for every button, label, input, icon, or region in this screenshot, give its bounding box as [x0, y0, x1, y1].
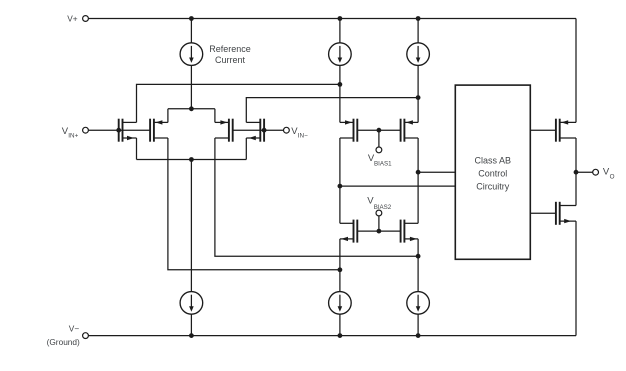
- node NMOS tail / current source I4: [189, 157, 194, 162]
- node top rail / current source I3: [416, 16, 421, 21]
- current source I4: [180, 292, 203, 315]
- svg-text:Control: Control: [478, 169, 507, 179]
- transistor M1 (NMOS, VIN+ input): [118, 119, 120, 142]
- node cascode column V2 / M4 drain wire: [416, 95, 421, 100]
- transistor M3 (PMOS, VIN- input): [232, 119, 234, 142]
- node VIN+ at M1 gate: [116, 128, 121, 133]
- svg-text:IN+: IN+: [68, 133, 78, 140]
- wire Class AB to output NMOS gate: [530, 212, 556, 214]
- svg-text:Reference: Reference: [209, 44, 251, 54]
- wire M8 source down to current source I6: [417, 239, 419, 292]
- svg-text:Class AB: Class AB: [475, 156, 512, 166]
- node V1 to class AB lower wire: [338, 184, 343, 189]
- svg-text:V−: V−: [69, 324, 80, 334]
- wire cascode column V2 mid: [417, 138, 419, 223]
- wire M1 drain up to folded-cascode line A: [137, 84, 340, 122]
- node lower cascode bus at V1: [338, 267, 343, 272]
- wire reference current to PMOS pair tail: [190, 65, 192, 108]
- node VBIAS2: [377, 229, 382, 234]
- wire Class AB to output PMOS gate: [530, 129, 556, 131]
- wire VIN+ to gates of M1 and M2: [88, 129, 150, 131]
- svg-text:BIAS1: BIAS1: [374, 160, 392, 167]
- transistor M4 (NMOS, VIN- input): [263, 119, 265, 142]
- wire output node to VO terminal: [576, 171, 593, 173]
- wire M4 drain up to folded-cascode line B: [246, 98, 418, 123]
- current source I6: [407, 292, 430, 315]
- node VBIAS1: [377, 128, 382, 133]
- terminal VBIAS1: [376, 147, 382, 153]
- transistor M2 (PMOS, VIN+ input): [149, 119, 151, 142]
- wire VIN- gates bus: [233, 129, 284, 131]
- node cascode column V1 / M1 drain wire: [338, 82, 343, 87]
- input terminal VIN-: [284, 127, 290, 133]
- svg-text:V+: V+: [67, 14, 78, 24]
- current source I1 Reference Current: [180, 43, 203, 66]
- current source I2: [329, 43, 352, 66]
- node V2 to class AB upper wire: [416, 170, 421, 175]
- svg-text:Circuitry: Circuitry: [476, 182, 509, 192]
- wire M10 source down to V- rail: [575, 221, 577, 336]
- power terminal V-: [83, 333, 89, 339]
- transistor M10 (output NMOS): [555, 202, 557, 225]
- wire VBIAS1 gate bus: [357, 129, 400, 131]
- transistor M8 (cascode NMOS right): [400, 220, 402, 243]
- svg-text:Current: Current: [215, 55, 246, 65]
- node top rail / reference current: [189, 16, 194, 21]
- wire current source I3 to cascode column: [417, 65, 419, 122]
- wire upper output of cascode to Class AB box: [418, 171, 455, 173]
- node upper cascode bus at V2: [416, 254, 421, 259]
- wire VBIAS2 stub: [378, 216, 380, 231]
- current source I5: [329, 292, 352, 315]
- input terminal VIN+: [83, 127, 89, 133]
- terminal VBIAS2: [376, 210, 382, 216]
- wire M7 source down to current source I5: [339, 239, 341, 292]
- wire output node (M9 drain to M10 drain): [575, 138, 577, 206]
- wire NMOS tail down to current source I4: [190, 160, 192, 292]
- node PMOS tail / reference current: [189, 106, 194, 111]
- wire M2 drain down to lower cascode bus: [168, 138, 340, 270]
- node VIN- at M4 gate: [262, 128, 267, 133]
- current source I3: [407, 43, 430, 66]
- wire PMOS pair tail bus: [168, 108, 215, 110]
- wire V+ rail to current source I2: [339, 19, 341, 43]
- wire I6 to V- rail: [417, 314, 419, 335]
- wire I5 to V- rail: [339, 314, 341, 335]
- svg-text:BIAS2: BIAS2: [374, 204, 392, 211]
- node V- rail / I6: [416, 333, 421, 338]
- wire V+ rail to current source I3: [417, 19, 419, 43]
- transistor M7 (cascode NMOS left): [356, 220, 358, 243]
- wire VBIAS1 stub: [378, 130, 380, 147]
- wire M2 source up to PMOS tail bus: [167, 109, 169, 123]
- wire I4 to V- rail: [190, 314, 192, 335]
- wire bottom V- rail: [88, 335, 576, 337]
- wire M3 drain down to upper cascode bus: [215, 138, 418, 256]
- node V- rail / I5: [338, 333, 343, 338]
- transistor M9 (output PMOS): [555, 119, 557, 142]
- output terminal VO: [593, 169, 599, 175]
- svg-text:(Ground): (Ground): [47, 337, 80, 347]
- node top rail / current source I2: [338, 16, 343, 21]
- transistor M6 (cascode PMOS right): [400, 119, 402, 142]
- wire M4 source down to NMOS tail bus: [245, 138, 247, 160]
- wire top V+ rail: [88, 18, 576, 20]
- wire M3 source up to PMOS tail bus: [214, 109, 216, 123]
- wire VBIAS2 gate bus: [357, 230, 400, 232]
- wire V+ rail to reference current source: [190, 19, 192, 43]
- wire current source I2 to cascode column: [339, 65, 341, 122]
- node V- rail / I4: [189, 333, 194, 338]
- wire V+ rail down to M9 source: [575, 19, 577, 123]
- wire lower output of cascode to Class AB box: [340, 185, 455, 187]
- power terminal V+: [83, 16, 89, 22]
- transistor M5 (cascode PMOS left): [356, 119, 358, 142]
- wire M1 source down to NMOS tail bus: [136, 138, 138, 160]
- node output: [574, 170, 579, 175]
- svg-text:IN−: IN−: [298, 133, 308, 140]
- block Class AB Control Circuitry: [455, 85, 530, 259]
- svg-text:O: O: [610, 174, 615, 181]
- wire NMOS pair tail bus: [137, 159, 247, 161]
- wire cascode column V1 mid: [339, 138, 341, 223]
